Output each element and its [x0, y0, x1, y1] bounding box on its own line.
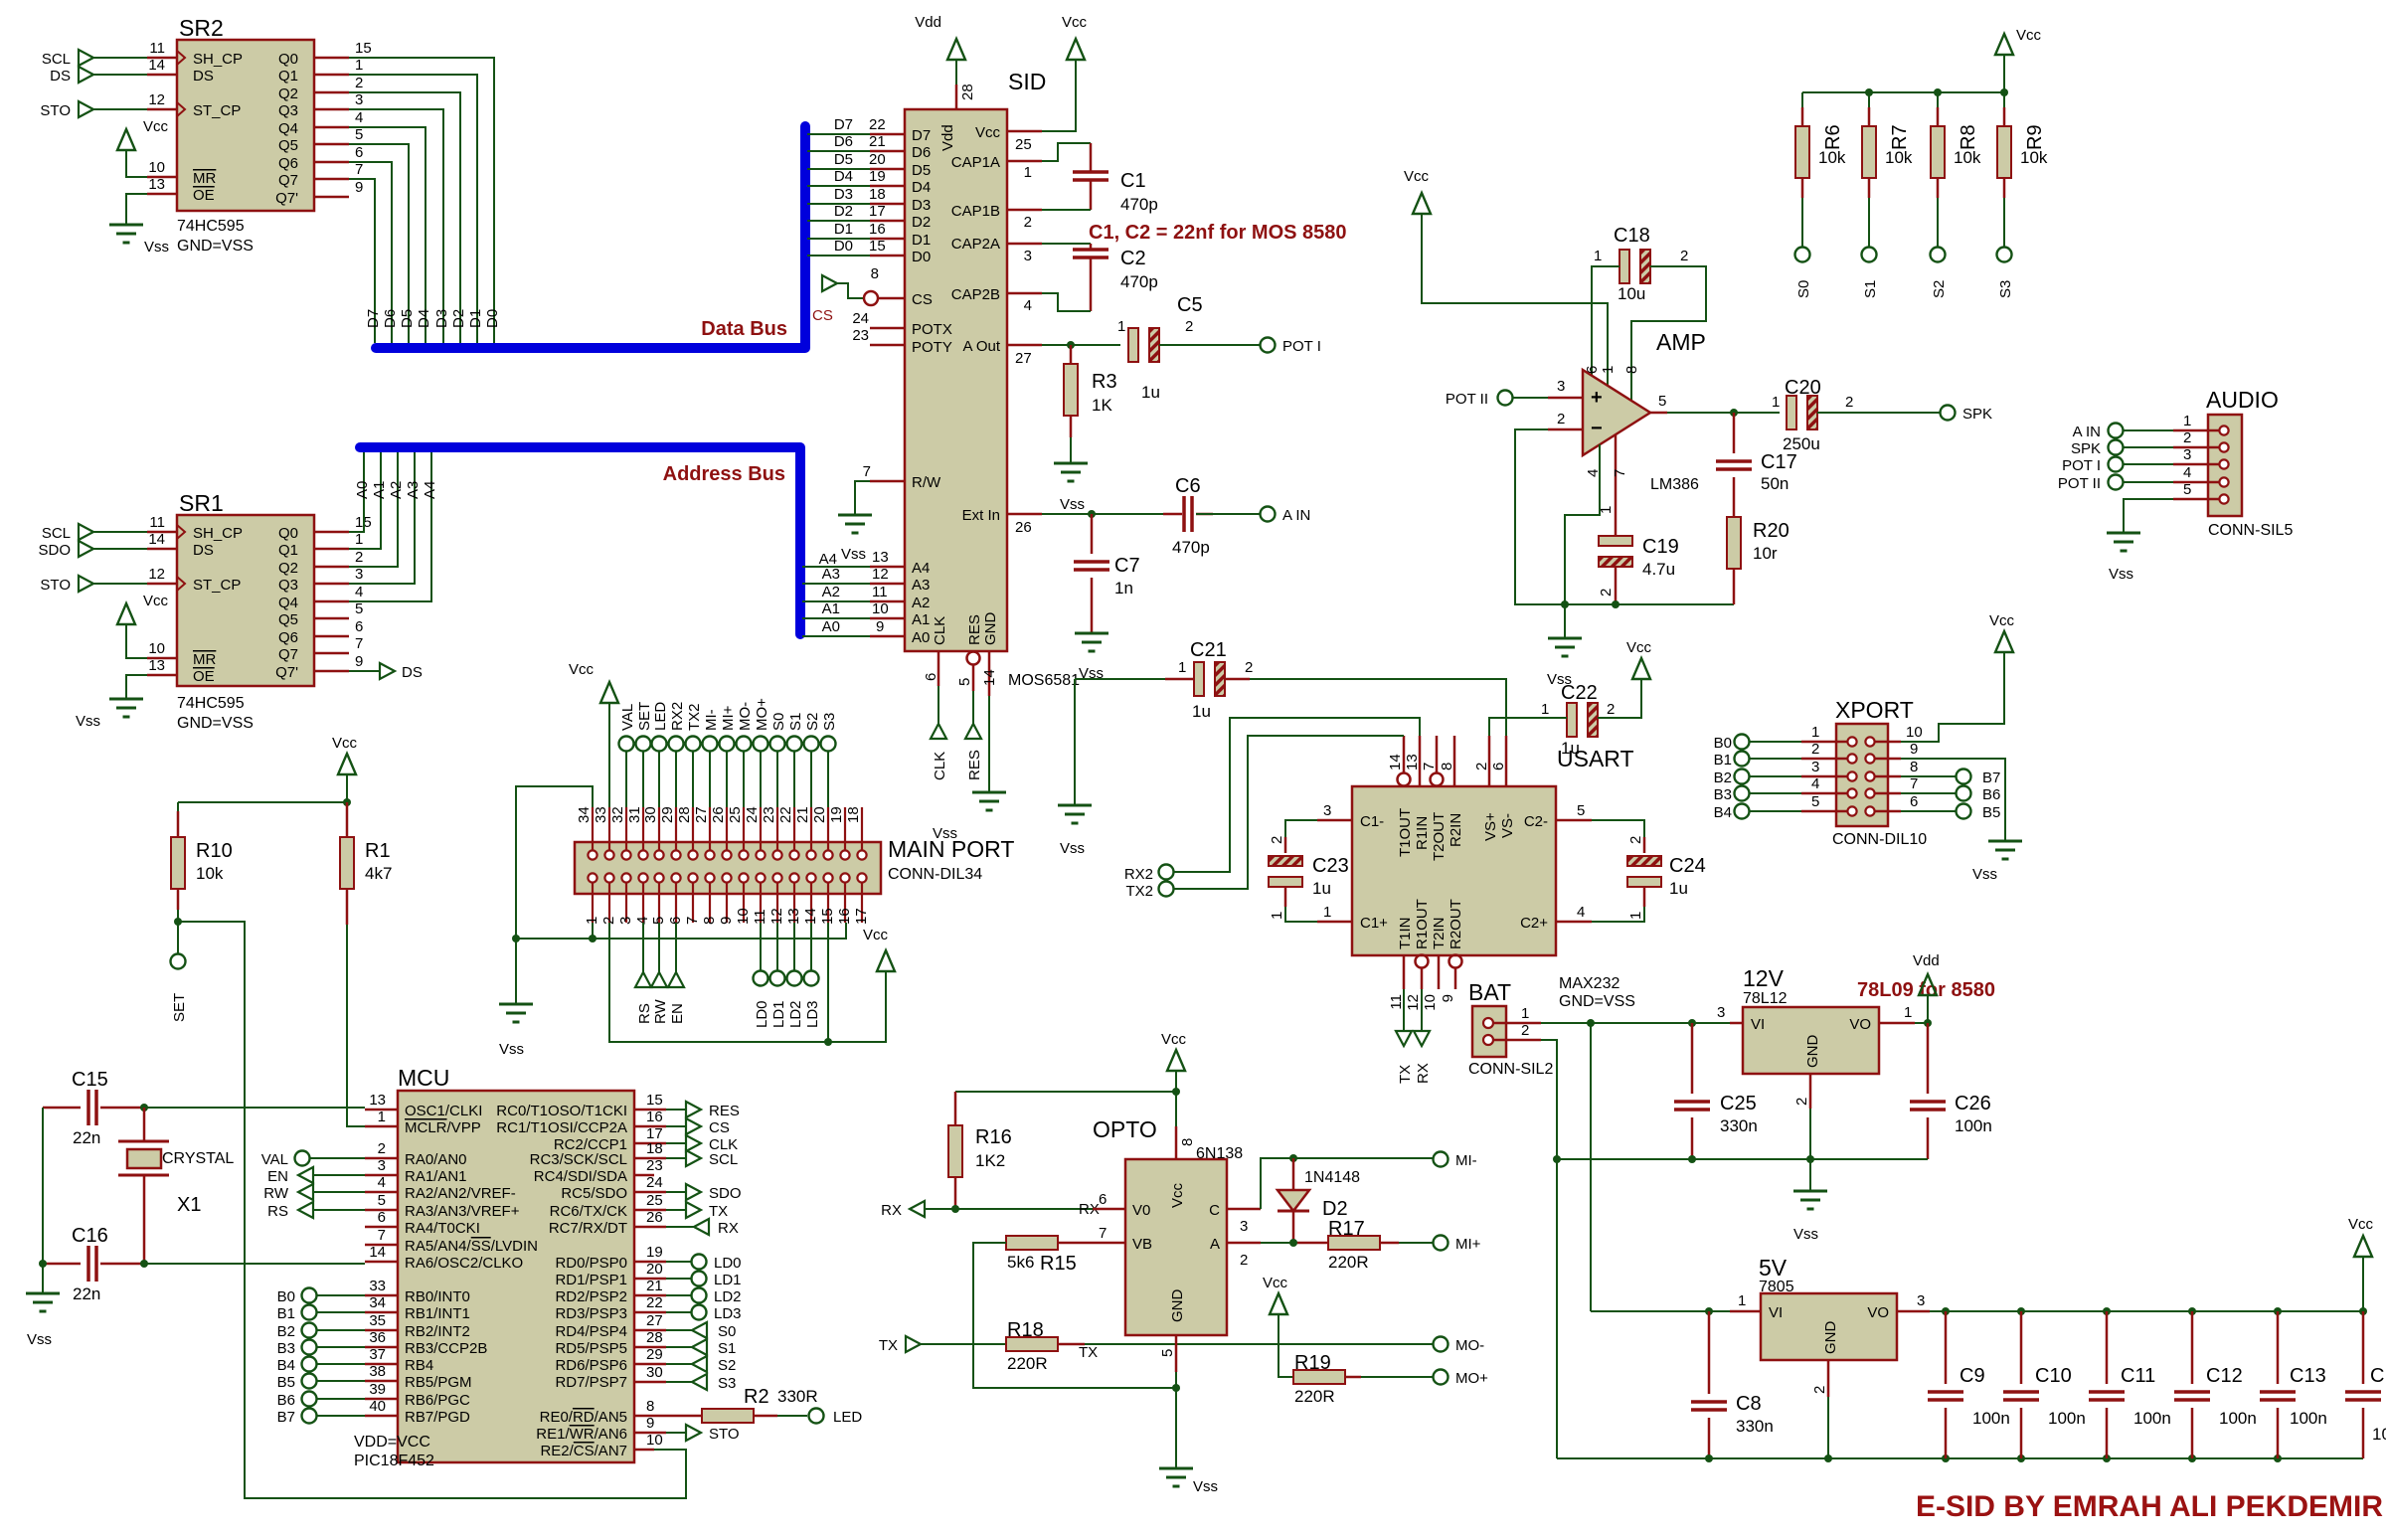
svg-text:2: 2	[378, 1140, 386, 1157]
svg-text:OE: OE	[193, 187, 215, 204]
svg-text:D1: D1	[912, 232, 931, 249]
wire B2 to RB2	[317, 1329, 365, 1331]
capacitor C22 1u	[1541, 682, 1615, 758]
bottom ground rail	[1557, 1457, 2363, 1459]
svg-text:470p: 470p	[1120, 272, 1158, 291]
wire POT II to audio pin4	[2124, 481, 2173, 483]
svg-text:2: 2	[355, 75, 363, 91]
resistor R10 10k	[171, 811, 233, 910]
wire RES down to terminal	[972, 691, 974, 724]
svg-text:RX: RX	[881, 1202, 902, 1219]
svg-text:C: C	[1209, 1202, 1220, 1219]
svg-text:Vss: Vss	[76, 713, 100, 730]
svg-text:A0: A0	[822, 618, 840, 635]
MAX232 bottom pin stubs 11 12 10 9	[1404, 955, 1455, 989]
resistor R1 4k7	[340, 802, 392, 925]
svg-text:7: 7	[863, 463, 871, 480]
svg-text:RA6/OSC2/CLKO: RA6/OSC2/CLKO	[405, 1255, 523, 1272]
svg-text:17: 17	[869, 203, 886, 220]
wire B0 to RB0	[317, 1294, 365, 1296]
svg-text:RW: RW	[652, 998, 669, 1024]
svg-text:Q4: Q4	[278, 595, 298, 611]
svg-text:GND: GND	[982, 612, 999, 646]
terminal S1 at MCU	[666, 1346, 692, 1348]
svg-text:9: 9	[355, 179, 363, 196]
svg-text:40: 40	[369, 1398, 386, 1415]
XPORT left stubs	[1801, 742, 1848, 811]
svg-text:10: 10	[148, 640, 165, 657]
svg-text:2: 2	[1185, 318, 1193, 335]
terminal LD2 (port)	[787, 971, 802, 986]
wire R17 to MI+	[1399, 1242, 1433, 1244]
svg-text:3: 3	[2183, 446, 2191, 463]
svg-text:POTX: POTX	[912, 321, 952, 338]
svg-text:7: 7	[684, 917, 701, 925]
svg-text:C19: C19	[1642, 536, 1679, 558]
shift register SR2 74HC595 body	[177, 15, 314, 255]
svg-text:Vss: Vss	[27, 1331, 52, 1348]
svg-text:21: 21	[646, 1278, 663, 1294]
svg-text:5: 5	[2183, 481, 2191, 498]
svg-text:D6: D6	[912, 144, 931, 161]
svg-text:RS: RS	[267, 1203, 288, 1220]
svg-text:18: 18	[869, 186, 886, 203]
svg-text:R8: R8	[1958, 124, 1979, 150]
terminal RES	[965, 724, 981, 739]
svg-text:27: 27	[693, 806, 710, 823]
svg-text:1u: 1u	[1669, 879, 1688, 898]
svg-text:A3: A3	[405, 481, 422, 499]
wire R7 to S1	[1868, 198, 1870, 248]
wire Q2 to data bus D2	[349, 92, 460, 343]
ground Vss at XPORT	[1988, 841, 2022, 859]
svg-text:470p: 470p	[1172, 538, 1210, 557]
svg-text:RB6/PGC: RB6/PGC	[405, 1392, 470, 1409]
svg-text:D2: D2	[450, 309, 467, 328]
svg-text:10k: 10k	[196, 864, 224, 883]
svg-text:RA1/AN1: RA1/AN1	[405, 1168, 467, 1185]
power Vcc at SR2 MR	[117, 129, 135, 150]
wire pin3 up to D2/MI-	[1261, 1158, 1433, 1209]
svg-text:4: 4	[1577, 904, 1585, 921]
SID Ext In pin 26 stub	[1007, 513, 1042, 516]
svg-text:1: 1	[1541, 701, 1549, 718]
svg-text:R1IN: R1IN	[1414, 816, 1431, 850]
svg-text:1: 1	[355, 57, 363, 74]
svg-text:SET: SET	[171, 993, 188, 1022]
svg-text:TX: TX	[1079, 1344, 1098, 1361]
connector BAT CONN-SIL2	[1468, 979, 1553, 1078]
svg-text:Vcc: Vcc	[1161, 1031, 1187, 1048]
capacitor C21 1u	[1178, 639, 1253, 721]
Vcc output rail of 7805	[1930, 1257, 2363, 1311]
svg-text:Vcc: Vcc	[1263, 1275, 1288, 1291]
SID left pin stubs D7-D0	[870, 134, 905, 256]
wire xport10 to Vcc	[1901, 652, 2004, 742]
terminal RX at OPTO	[910, 1201, 925, 1217]
svg-text:D5: D5	[834, 151, 853, 168]
svg-text:3: 3	[355, 91, 363, 108]
ground Vss below R3	[1054, 463, 1088, 481]
op-amp pin 7 to C19	[1615, 434, 1618, 536]
svg-text:A3: A3	[822, 566, 840, 583]
svg-text:A1: A1	[912, 611, 930, 628]
wire SCL to SR1 SH_CP	[93, 531, 147, 533]
svg-text:100n: 100n	[2219, 1409, 2257, 1428]
svg-text:B3: B3	[277, 1340, 295, 1357]
ground Vss below SID	[972, 792, 1006, 810]
node junctions on rail	[1865, 88, 1873, 96]
svg-text:D7: D7	[912, 127, 931, 144]
pin 9 bubble	[1449, 955, 1462, 968]
wire pin12 to LD1	[776, 923, 778, 971]
svg-text:DS: DS	[50, 68, 71, 85]
svg-text:33: 33	[593, 806, 609, 823]
svg-text:A Out: A Out	[962, 338, 1000, 355]
terminal RW at MCU	[298, 1184, 313, 1200]
svg-text:MI-: MI-	[1455, 1152, 1477, 1169]
svg-text:B4: B4	[1714, 804, 1732, 821]
svg-text:CS: CS	[912, 291, 933, 308]
terminal MI- (port)	[703, 737, 718, 752]
wire pin14 to LD3	[810, 923, 812, 971]
power Vcc above OPTO	[1167, 1050, 1185, 1071]
svg-text:27: 27	[1015, 350, 1032, 367]
OPTO GND pin5	[1175, 1335, 1178, 1372]
wire T1IN to TX terminal	[1403, 989, 1405, 1031]
svg-text:13: 13	[785, 908, 802, 925]
svg-text:RB0/INT0: RB0/INT0	[405, 1288, 470, 1305]
svg-text:8: 8	[1439, 763, 1455, 770]
wire SR1 Q7' to DS terminal	[349, 670, 380, 672]
svg-text:330R: 330R	[777, 1387, 818, 1406]
svg-text:VI: VI	[1769, 1304, 1783, 1321]
svg-text:10u: 10u	[1618, 284, 1645, 303]
svg-text:D4: D4	[912, 179, 931, 196]
terminal SCL (SR1)	[79, 524, 93, 540]
wire C6 to A IN	[1196, 513, 1260, 515]
svg-text:A4: A4	[912, 560, 930, 577]
svg-text:1u: 1u	[1192, 702, 1211, 721]
svg-text:15: 15	[355, 40, 372, 57]
svg-text:7: 7	[1421, 763, 1438, 770]
node labels A0-A4 at bus entries	[354, 481, 438, 499]
svg-text:19: 19	[828, 806, 845, 823]
svg-text:B0: B0	[1714, 735, 1732, 752]
svg-text:ST_CP: ST_CP	[193, 102, 241, 119]
ground Vss at R/W	[838, 515, 872, 533]
svg-text:6: 6	[1490, 763, 1507, 770]
SR2 left pin stubs	[147, 58, 177, 194]
wire C20 to SPK	[1817, 412, 1940, 414]
wires data bus to SID D pins	[807, 134, 870, 256]
svg-text:1: 1	[2183, 413, 2191, 429]
svg-text:2: 2	[1521, 1022, 1529, 1039]
svg-text:C2: C2	[1120, 248, 1146, 269]
svg-text:8: 8	[871, 265, 879, 282]
svg-text:Ext In: Ext In	[962, 507, 1000, 524]
svg-text:2: 2	[1240, 1252, 1248, 1269]
svg-text:D2: D2	[1322, 1198, 1348, 1220]
terminal CLK at MCU	[666, 1142, 686, 1144]
svg-text:S0: S0	[718, 1323, 736, 1340]
svg-text:Q0: Q0	[278, 525, 298, 542]
wire Vcc to SID pin 25	[1042, 60, 1076, 131]
svg-text:220R: 220R	[1328, 1253, 1369, 1272]
terminal LD3 at MCU	[666, 1311, 691, 1313]
svg-text:8: 8	[701, 917, 718, 925]
svg-text:330n: 330n	[1720, 1116, 1758, 1135]
svg-text:2: 2	[1269, 836, 1285, 844]
power Vdd	[1927, 995, 1929, 1023]
svg-text:VAL: VAL	[261, 1151, 288, 1168]
svg-text:5: 5	[956, 678, 973, 686]
resistor R9 10k	[1997, 107, 2048, 198]
svg-text:RC1/T1OSI/CCP2A: RC1/T1OSI/CCP2A	[496, 1119, 627, 1136]
wire STO to SR1 ST_CP	[93, 583, 147, 585]
svg-text:RC0/T1OSO/T1CKI: RC0/T1OSO/T1CKI	[496, 1103, 627, 1119]
svg-text:1: 1	[1811, 724, 1819, 741]
svg-text:TX2: TX2	[686, 703, 703, 731]
svg-text:SDO: SDO	[709, 1185, 742, 1202]
svg-text:RD6/PSP6: RD6/PSP6	[555, 1357, 627, 1374]
svg-text:5V: 5V	[1759, 1255, 1788, 1281]
svg-text:T1IN: T1IN	[1397, 917, 1414, 949]
capacitor C26 100n	[1910, 1023, 1992, 1159]
svg-text:POT II: POT II	[1446, 391, 1488, 408]
SID CLK pin 6	[937, 651, 940, 686]
svg-text:28: 28	[646, 1329, 663, 1346]
svg-text:A1: A1	[822, 600, 840, 617]
svg-text:C16: C16	[72, 1225, 108, 1247]
svg-text:6: 6	[1910, 793, 1918, 810]
svg-text:LED: LED	[652, 702, 669, 731]
wire SR1 OE to ground	[126, 675, 147, 699]
SID RES pin 5 bubble	[967, 652, 980, 665]
svg-text:CONN-DIL34: CONN-DIL34	[888, 866, 982, 883]
svg-text:RC6/TX/CK: RC6/TX/CK	[550, 1203, 627, 1220]
svg-text:26: 26	[710, 806, 727, 823]
svg-text:D0: D0	[484, 309, 501, 328]
svg-text:SCL: SCL	[709, 1151, 738, 1168]
svg-text:14: 14	[148, 57, 165, 74]
svg-text:10: 10	[148, 159, 165, 176]
svg-text:38: 38	[369, 1363, 386, 1380]
svg-text:D1: D1	[834, 221, 853, 238]
terminal MI+ (port)	[720, 737, 735, 752]
svg-text:2: 2	[1627, 836, 1644, 844]
svg-text:B0: B0	[277, 1288, 295, 1305]
svg-text:1: 1	[1627, 912, 1644, 920]
svg-text:MAX232: MAX232	[1559, 975, 1619, 992]
svg-text:MCU: MCU	[398, 1065, 449, 1091]
78L12 VO stub pin1	[1879, 1022, 1915, 1025]
ground Vss at AUDIO	[2107, 533, 2140, 551]
svg-text:RX: RX	[718, 1220, 739, 1237]
svg-text:26: 26	[1015, 519, 1032, 536]
svg-text:B6: B6	[1982, 786, 2000, 803]
wire POT I to audio pin3	[2124, 463, 2173, 465]
svg-text:470p: 470p	[1120, 195, 1158, 214]
svg-text:SH_CP: SH_CP	[193, 525, 243, 542]
terminal S1	[1862, 248, 1877, 262]
capacitor C6 470p	[1163, 475, 1213, 557]
wire Q1 to data bus D1	[349, 75, 477, 343]
node A Out junction	[1067, 341, 1075, 349]
svg-text:GND=VSS: GND=VSS	[1559, 993, 1635, 1010]
svg-text:R2OUT: R2OUT	[1448, 899, 1464, 949]
svg-text:1: 1	[1600, 366, 1617, 374]
svg-text:9: 9	[1440, 994, 1456, 1002]
svg-text:STO: STO	[40, 577, 71, 594]
node Ext In junction	[1088, 510, 1096, 518]
svg-text:OPTO: OPTO	[1093, 1116, 1157, 1142]
pin 8 bubble and stub	[864, 291, 878, 305]
svg-text:B2: B2	[277, 1323, 295, 1340]
svg-text:1: 1	[1594, 248, 1602, 264]
OPTO pin3 stub	[1227, 1208, 1261, 1211]
svg-text:C22: C22	[1561, 682, 1598, 704]
svg-text:1: 1	[378, 1109, 386, 1125]
svg-text:RC4/SDI/SDA: RC4/SDI/SDA	[534, 1168, 627, 1185]
svg-text:10k: 10k	[1954, 148, 1981, 167]
terminal POT II (audio)	[2109, 475, 2124, 490]
wire STO to ST_CP	[93, 108, 147, 110]
svg-text:D7: D7	[365, 309, 382, 328]
wire pin2 to Vcc rail B	[609, 923, 886, 1042]
terminal B5	[1957, 804, 1971, 819]
wire RS to RA3	[313, 1209, 365, 1211]
terminal S0	[1795, 248, 1810, 262]
wire B3 to RB3	[317, 1346, 365, 1348]
wire A Out to C5	[1042, 344, 1120, 346]
svg-text:13: 13	[148, 657, 165, 674]
wire B3 to xport4	[1750, 792, 1801, 794]
svg-text:Vcc: Vcc	[332, 735, 358, 752]
svg-text:10: 10	[735, 908, 752, 925]
svg-text:74HC595: 74HC595	[177, 695, 245, 712]
MAIN PORT top pin numbers 34-18	[576, 806, 862, 823]
SR2 right pin numbers	[355, 40, 372, 196]
svg-text:ST_CP: ST_CP	[193, 577, 241, 594]
svg-text:B6: B6	[277, 1392, 295, 1409]
svg-text:Vcc: Vcc	[2348, 1216, 2374, 1233]
svg-text:11: 11	[149, 40, 165, 57]
terminal RX at MCU	[666, 1226, 694, 1228]
svg-text:1N4148: 1N4148	[1304, 1169, 1360, 1186]
svg-text:Q5: Q5	[278, 611, 298, 628]
wire pin1 to rail	[592, 923, 594, 939]
svg-text:74HC595: 74HC595	[177, 218, 245, 235]
terminal B5 at MCU	[302, 1374, 317, 1389]
svg-text:Vss: Vss	[1972, 866, 1997, 883]
svg-text:7: 7	[355, 161, 363, 178]
svg-text:4.7u: 4.7u	[1642, 560, 1675, 579]
SR2 right pin stubs	[314, 58, 349, 197]
capacitor C25 330n	[1674, 1023, 1758, 1159]
svg-text:C11: C11	[2121, 1365, 2155, 1387]
wire R15 left loop to GND junction	[973, 1243, 1176, 1388]
svg-text:CLK: CLK	[932, 616, 948, 645]
terminal VAL (port)	[619, 737, 634, 752]
svg-text:C14: C14	[2370, 1365, 2386, 1387]
resistor R2 330R	[666, 1386, 818, 1423]
terminal POT II	[1498, 391, 1513, 406]
wire R15 to pin7	[1058, 1242, 1093, 1245]
wire C18 pin1 to op-amp pin 6	[1592, 266, 1619, 378]
terminal S3 (port)	[821, 737, 836, 752]
svg-text:EN: EN	[669, 1003, 686, 1024]
svg-text:14: 14	[148, 531, 165, 548]
svg-text:A4: A4	[422, 481, 438, 499]
ground Vss below OPTO	[1159, 1468, 1193, 1486]
terminal CLK	[931, 724, 946, 739]
wire BAT+ down to 5V	[1590, 1023, 1592, 1311]
wire RX to V0 pin6	[925, 1208, 1093, 1210]
svg-text:D2: D2	[834, 203, 853, 220]
svg-text:C1+: C1+	[1360, 915, 1388, 932]
svg-text:3: 3	[1557, 378, 1565, 395]
svg-text:10: 10	[872, 600, 889, 617]
capacitor C9 100n	[1928, 1311, 2010, 1458]
svg-text:Q3: Q3	[278, 577, 298, 594]
capacitor C16 22n	[43, 1225, 144, 1303]
capacitor C14 100n	[2345, 1311, 2386, 1458]
wire Q4 to data bus D4	[349, 127, 426, 343]
svg-text:R2: R2	[744, 1386, 769, 1408]
ground Vss at SR1	[109, 699, 143, 717]
wire SR1 Q3 to address bus A3	[349, 452, 415, 584]
svg-text:7805: 7805	[1759, 1279, 1794, 1295]
svg-text:CONN-SIL5: CONN-SIL5	[2208, 522, 2293, 539]
svg-text:3: 3	[355, 566, 363, 583]
terminal SCL	[79, 50, 93, 66]
wire Ext In to C6	[1042, 513, 1163, 515]
capacitor C17 50n	[1716, 413, 1797, 517]
terminal B7 at MCU	[302, 1409, 317, 1424]
svg-text:RB4: RB4	[405, 1357, 433, 1374]
svg-text:RB3/CCP2B: RB3/CCP2B	[405, 1340, 487, 1357]
terminal B4	[1735, 804, 1750, 819]
svg-text:3: 3	[1917, 1292, 1925, 1309]
svg-text:2: 2	[1793, 1098, 1810, 1106]
wire Q6 to data bus D6	[349, 162, 392, 343]
svg-text:+: +	[1591, 387, 1603, 409]
wire R9 to S3	[2003, 198, 2005, 248]
resistor R19 220R	[1293, 1352, 1361, 1406]
wire Vcc to op-amp pin 1	[1422, 214, 1608, 388]
svg-text:Vcc: Vcc	[1169, 1182, 1186, 1208]
svg-text:RC7/RX/DT: RC7/RX/DT	[549, 1220, 627, 1237]
svg-text:34: 34	[576, 806, 593, 823]
resistor R16 1K2	[948, 1092, 1012, 1209]
svg-text:19: 19	[646, 1244, 663, 1261]
MAX232 right pin stubs 5 4	[1556, 820, 1592, 922]
svg-text:VO: VO	[1867, 1304, 1889, 1321]
svg-text:R6: R6	[1822, 124, 1844, 150]
svg-text:MCLR/VPP: MCLR/VPP	[405, 1119, 481, 1136]
svg-text:D5: D5	[399, 309, 416, 328]
terminal MO+	[1434, 1370, 1449, 1385]
svg-text:D0: D0	[912, 249, 931, 265]
terminal MO-	[1434, 1337, 1449, 1352]
terminal SCL at MCU	[666, 1157, 686, 1159]
terminal TX2	[1159, 882, 1174, 897]
SR1 right pin numbers	[355, 514, 372, 670]
terminal LD3 (port)	[804, 971, 819, 986]
terminal B2 at MCU	[302, 1323, 317, 1338]
node junctions on BAT+	[1587, 1019, 1595, 1027]
